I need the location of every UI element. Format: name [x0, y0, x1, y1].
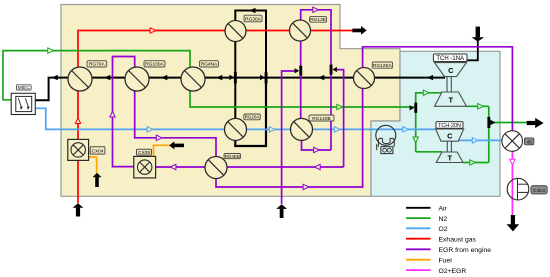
flow arrow air toward RG100A second	[161, 75, 167, 80]
wire EGR: RG13E top loop down right side	[301, 10, 331, 150]
label TCH -1NA	[433, 54, 467, 62]
turbocharger TCH-1NA compressor C	[435, 63, 467, 77]
label CX04	[90, 147, 105, 155]
svg-text:Fuel: Fuel	[439, 257, 453, 264]
svg-text:RG20A: RG20A	[245, 115, 260, 120]
svg-text:45: 45	[527, 139, 532, 144]
junction node J1 on air line	[229, 72, 236, 83]
label C4C4 of motor	[531, 186, 547, 194]
MIEC membrane unit U1	[11, 93, 35, 114]
svg-text:T: T	[448, 153, 453, 162]
flow arrow air toward MIEC	[52, 75, 58, 80]
label MIEC	[17, 85, 32, 91]
thick outlet arrow N2 (right)	[527, 118, 544, 128]
turbocharger TCH-1NA turbine T	[435, 92, 467, 106]
wire air: RG70A to RG100A	[92, 77, 125, 79]
flow arrow exhaust up into RG70A	[75, 118, 80, 124]
wire EGR: CX08 outlet riser up and over to RG100A top	[113, 57, 135, 167]
flow arrow air on RG30A top loop	[249, 8, 255, 13]
wire air: junction J2 to RG12EA	[266, 77, 354, 79]
wire air: RG4NA to junction node J1	[205, 77, 236, 79]
flow arrow EGR right on RG13E top loop	[313, 7, 319, 12]
wire fuel: into CX04	[89, 157, 97, 173]
wire O2: compressor C TCH-20N outlet to fan C4E	[459, 139, 502, 141]
turbocharger TCH-20N turbine T	[436, 152, 463, 163]
svg-text:RG4NA: RG4NA	[201, 62, 218, 68]
wire N2: riser to turbine T of TCH-1NA	[416, 93, 442, 152]
legend entry N2	[406, 216, 447, 223]
svg-text:N2: N2	[439, 216, 448, 223]
svg-text:TCH -1NA: TCH -1NA	[436, 56, 464, 62]
engine icon inside cyan box	[376, 125, 396, 153]
heat exchanger RG140B	[291, 118, 313, 140]
thick outlet arrow exhaust gas (top centre)	[352, 26, 366, 35]
flow arrow O2 right 3	[334, 127, 340, 132]
junction node EGR merge left	[295, 66, 303, 76]
label TCH-20N	[436, 122, 463, 129]
flow arrow exhaust right on top line	[150, 28, 156, 33]
wire air: RG30A bottom to RG20A top through J1	[234, 42, 236, 119]
wire EGR: RG4EB bottom right to RG12EA bottom	[216, 88, 363, 187]
flow arrow air from compressor TCH-1NA	[427, 75, 433, 80]
heat exchanger RG4EB	[205, 157, 227, 179]
flow arrow N2 into turbine TCH-1NA	[423, 90, 429, 95]
label RG4EB	[224, 154, 241, 159]
beige system boundary box	[61, 5, 400, 197]
heat exchanger RG12EA	[354, 68, 375, 89]
svg-text:RG100A: RG100A	[145, 62, 164, 68]
label RG100A	[144, 61, 165, 68]
svg-text:RG4EB: RG4EB	[225, 154, 240, 159]
wire air: MIEC outlet to RG70A	[35, 78, 68, 101]
wire N2: right collector riser	[488, 106, 490, 162]
svg-text:EGR from engine: EGR from engine	[439, 247, 492, 254]
wire exhaust: RG30A to RG13E	[246, 30, 290, 32]
flow arrow O2+EGR down	[510, 159, 515, 165]
label RG140B	[309, 115, 334, 122]
flow arrow N2 line centre	[337, 104, 343, 109]
turbocharger TCH-20N compressor C	[436, 129, 464, 141]
heat exchanger RG4NA	[181, 67, 205, 91]
flow arrow N2 down riser	[413, 137, 418, 143]
flow arrow EGR left into RG4EB	[315, 164, 321, 169]
svg-text:RG12EA: RG12EA	[373, 63, 393, 69]
svg-text:CX08: CX08	[138, 150, 150, 156]
junction node EGR merge right	[330, 65, 337, 75]
flow arrow air toward RG4NA	[216, 75, 222, 80]
heat exchanger RG70A	[68, 67, 92, 91]
svg-text:O2+EGR: O2+EGR	[439, 268, 467, 275]
svg-text:T: T	[449, 96, 454, 105]
flow arrow air toward RG70A	[104, 75, 110, 80]
thick inlet arrow ambient air (top right)	[472, 27, 485, 42]
wire EGR: RG13E bottom riser through air line to RG140B	[300, 41, 302, 118]
flow arrow N2 from turbine TCH-1NA	[478, 104, 484, 109]
fan C4E mixing O2 and EGR	[502, 131, 523, 152]
wire air: RG12EA to compressor C of TCH-1NA	[374, 77, 445, 79]
thick inlet arrow fuel to CX08	[169, 141, 184, 149]
thick outlet arrow O2+EGR (bottom right)	[507, 215, 520, 231]
svg-text:O2: O2	[439, 226, 448, 233]
wire O2: RG20A to RG140B	[246, 128, 290, 130]
wire N2: RG4NA bottom to green merge node	[190, 90, 414, 107]
flow arrow EGR right to RG4EB top	[156, 135, 162, 140]
svg-text:CX04: CX04	[92, 149, 104, 155]
svg-text:C4C4: C4C4	[533, 188, 545, 193]
turbocharger TCH-20N shaft	[447, 141, 451, 152]
cyan turbo group box	[371, 51, 500, 196]
legend entry Fuel	[406, 257, 452, 264]
svg-text:RG70A: RG70A	[89, 62, 106, 68]
wire N2: into turbine T of TCH-20N	[416, 151, 442, 153]
junction node J2 on air line	[260, 72, 267, 83]
legend entry Air	[406, 206, 448, 213]
wire air: RG100A to RG4NA	[149, 77, 181, 79]
flow arrow O2 right 1	[147, 127, 153, 132]
wire air: RG20A bottom return loop to J2	[235, 78, 266, 146]
flow arrow air toward J2	[318, 75, 324, 80]
label RG4NA	[200, 61, 219, 68]
label RG70A	[87, 61, 107, 68]
wire air: RG30A bypass top loop	[235, 11, 266, 78]
wire EGR: RG100A bottom down and right to RG4EB top	[135, 90, 216, 156]
heat exchanger RG20A	[225, 118, 247, 140]
wire exhaust: RG70A top, right to RG30A	[78, 31, 225, 68]
wire O2: MIEC outlet down to main O2 line	[35, 108, 224, 129]
wire EGR: bottom entry riser up to merge	[282, 71, 297, 204]
flow arrow N2 from turbine TCH-20N	[470, 160, 476, 165]
flow arrow O2 right 4	[403, 127, 409, 132]
svg-text:Air: Air	[439, 206, 448, 213]
junction node N2 outlet tee	[487, 117, 495, 128]
combustor CX08	[134, 156, 156, 178]
wire exhaust: RG13E to outlet arrow	[310, 30, 352, 32]
legend entry Exhaust gas	[406, 236, 477, 243]
wire EGR: RG4EB right side	[227, 166, 344, 168]
flow arrow O2 from compressor TCH-20N	[472, 138, 478, 143]
wire exhaust: CX04 up to RG70A	[77, 91, 79, 140]
svg-text:RG13E: RG13E	[310, 17, 326, 23]
legend entry O2+EGR	[406, 268, 466, 275]
svg-text:C: C	[448, 66, 454, 75]
wire EGR: RG4EB left side into CX08	[156, 166, 205, 168]
wire air intake: down into compressor C of TCH-1NA	[466, 41, 478, 63]
flow arrow EGR left into CX08	[170, 164, 176, 169]
heat exchanger RG13E	[290, 20, 311, 41]
flow arrow EGR up riser to RG100A	[110, 111, 115, 117]
flow arrow N2 main line left	[48, 48, 54, 53]
label RG20A	[244, 114, 260, 120]
motor/generator C4C4 at bottom right	[507, 178, 529, 200]
junction node N2 merge	[410, 103, 418, 113]
wire O2+EGR: fan C4E down through motor to exit	[511, 151, 513, 216]
combustor CX04	[68, 139, 89, 160]
legend entry O2	[406, 226, 448, 233]
label RG12EA	[372, 62, 392, 69]
label RG30A	[244, 15, 262, 22]
svg-text:MIEC: MIEC	[18, 85, 31, 91]
thick inlet arrow EGR from engine (bottom centre)	[276, 204, 287, 218]
wire N2: MIEC left loop to RG4NA top	[3, 51, 190, 100]
thick inlet arrow fuel to CX04	[93, 173, 102, 187]
label C45 of fan	[524, 138, 534, 145]
thick inlet arrow exhaust gas from engine (bottom left)	[73, 203, 84, 216]
wire fuel: into CX08	[154, 145, 169, 156]
wire O2: RG140B to compressor C of TCH-20N	[312, 128, 436, 130]
heat exchanger RG100A	[125, 67, 149, 91]
svg-text:C: C	[447, 131, 453, 140]
wire N2: turbine T TCH-20N outlet	[463, 162, 489, 164]
wire N2: turbine T TCH-1NA outlet	[467, 105, 489, 107]
wire EGR: RG140B bottom loop	[302, 140, 332, 150]
turbocharger TCH-1NA shaft	[447, 77, 451, 92]
label RG13E	[310, 16, 327, 23]
flow arrow EGR right on bottom run	[303, 184, 309, 189]
flow arrow O2 right 2	[269, 127, 275, 132]
svg-text:RG30A: RG30A	[245, 16, 262, 22]
svg-text:RG140B: RG140B	[312, 116, 330, 122]
wire air: junction J1 to junction J2	[235, 77, 266, 79]
svg-text:TCH-20N: TCH-20N	[438, 123, 461, 129]
label CX08	[137, 149, 152, 156]
legend entry EGR from engine	[406, 247, 491, 254]
wire EGR: RG12EA top long run to fan C4E	[363, 47, 513, 131]
wire EGR: right riser merge into RG13E loop	[337, 70, 344, 167]
wire N2: outlet to exit arrow	[489, 122, 527, 124]
wire exhaust: bottom entry up to CX04	[77, 160, 79, 203]
heat exchanger RG30A	[225, 21, 246, 42]
svg-text:Exhaust gas: Exhaust gas	[439, 236, 477, 243]
flow arrow EGR right on RG140B loop	[314, 147, 320, 152]
